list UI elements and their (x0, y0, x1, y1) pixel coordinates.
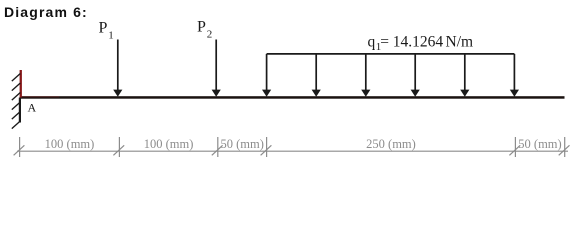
svg-text:Diagram 6:: Diagram 6: (4, 4, 88, 20)
support hatch 1 (12, 74, 20, 82)
q1 arrow 3 (365, 54, 367, 91)
svg-text:P: P (197, 19, 206, 36)
dim tick 6 (559, 137, 570, 157)
dim tick 1 (14, 137, 25, 157)
dimension baseline (17, 150, 568, 152)
support hatch 4 (12, 102, 20, 110)
fixed support wall (lower, black) (19, 98, 21, 123)
q1 arrow 5 (464, 54, 466, 91)
dim tick 3 (212, 137, 223, 157)
dim tick 2 (113, 137, 124, 157)
svg-text:P: P (99, 20, 108, 37)
support hatch 3 (12, 93, 20, 101)
distributed load q1 top line (267, 53, 515, 55)
support hatch 6 (12, 121, 20, 129)
q1 arrow 2 (315, 54, 317, 91)
support hatch 2 (12, 83, 20, 91)
fixed support wall (upper, maroon) (20, 70, 22, 98)
support hatch 5 (12, 112, 20, 120)
q1 arrow 4 (414, 54, 416, 91)
svg-text:50 (mm): 50 (mm) (220, 137, 263, 151)
svg-text:250 (mm): 250 (mm) (366, 137, 416, 151)
beam (20, 96, 565, 99)
dim tick 5 (509, 137, 520, 157)
q1 arrow 1 (266, 54, 268, 91)
svg-text:N/m: N/m (446, 33, 474, 50)
svg-text:A: A (28, 101, 37, 115)
dim tick 4 (261, 137, 272, 157)
svg-text:100 (mm): 100 (mm) (144, 137, 194, 151)
point load P2 arrow shaft (215, 40, 217, 92)
svg-text:= 14.1264: = 14.1264 (380, 33, 443, 50)
point load P1 arrow shaft (117, 40, 119, 92)
svg-text:q: q (368, 33, 376, 50)
point load P2 arrowhead (212, 90, 221, 97)
beam left red tint edge (21, 96, 59, 97)
point load P1 arrowhead (113, 90, 122, 97)
svg-text:100 (mm): 100 (mm) (45, 137, 95, 151)
svg-text:2: 2 (207, 29, 213, 41)
svg-text:1: 1 (108, 30, 114, 42)
q1 arrow 6 (513, 54, 515, 91)
svg-text:50 (mm): 50 (mm) (518, 137, 561, 151)
